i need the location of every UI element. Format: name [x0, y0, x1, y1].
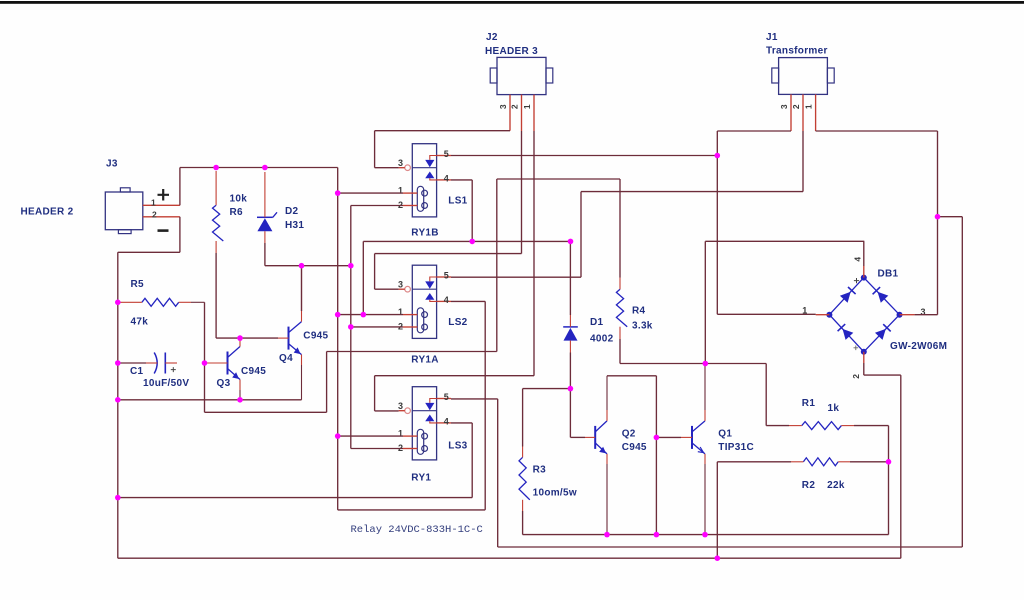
- zener diode D2 H31: [257, 212, 277, 231]
- resistor R1 zigzag: [802, 422, 842, 430]
- junction R6 top rail: [213, 165, 219, 171]
- svg-text:Q1: Q1: [718, 429, 732, 440]
- wire RY1 pin4 return: [118, 497, 472, 499]
- svg-text:Q2: Q2: [622, 429, 636, 440]
- transistor Q3 C945: [228, 347, 241, 380]
- junction J1 pin1 DB1 pin3: [935, 214, 941, 220]
- RY1A coil loop 1: [422, 312, 428, 318]
- wire DB1 pin3 riser: [937, 217, 939, 315]
- RY1 pin 3 bubble: [405, 408, 411, 414]
- J1 pin 1 stub: [815, 94, 817, 131]
- wire D1 anode to node: [569, 353, 571, 389]
- resistor R4 zigzag: [616, 289, 627, 326]
- RY1 contact common link pin5: [430, 399, 437, 403]
- svg-text:RY1: RY1: [411, 473, 431, 484]
- junction C1 left bus: [115, 360, 121, 366]
- wire R1R2 right bus: [888, 426, 890, 535]
- svg-text:Relay 24VDC-833H-1C-C: Relay 24VDC-833H-1C-C: [351, 524, 483, 536]
- J1 pin 3 stub: [790, 94, 792, 131]
- svg-text:GW-2W06M: GW-2W06M: [890, 341, 947, 352]
- wire Q1 base run: [656, 436, 681, 438]
- svg-text:J3: J3: [106, 159, 118, 170]
- RY1B contact common link pin5: [430, 156, 437, 160]
- svg-text:Q4: Q4: [279, 353, 293, 364]
- junction Q3 collector: [237, 335, 243, 341]
- wire R1 right to bus: [854, 425, 889, 427]
- wire C1 left connects bus: [118, 362, 146, 364]
- wire J1 pin2 riser: [580, 192, 582, 278]
- wire RY1A pin5 run: [451, 276, 581, 278]
- wire RY1B pin3 run: [375, 167, 399, 169]
- wire node to feedback run: [205, 411, 327, 413]
- wire J2 pin1 drop: [533, 131, 535, 376]
- wire R3 top riser: [522, 389, 524, 447]
- svg-text:4: 4: [444, 173, 449, 183]
- junction C1 right node: [202, 360, 208, 366]
- wire J2 pin1 link: [375, 375, 534, 377]
- svg-text:2: 2: [791, 104, 801, 109]
- wire collector loop drop: [655, 376, 657, 535]
- wire RY1B pin2 corner: [351, 205, 403, 207]
- wire R2 left run: [717, 461, 791, 463]
- R2 left stub: [791, 461, 803, 463]
- wire J1 pin1 jog: [938, 216, 963, 218]
- wire chain bottom run: [338, 509, 486, 511]
- wire Q4 emitter down: [301, 365, 303, 400]
- svg-text:5: 5: [444, 392, 449, 402]
- wire Q3 emitter to rail: [239, 390, 241, 400]
- wire J2 pin2 drop: [521, 131, 523, 254]
- wire RY1A pin1 run: [338, 314, 403, 316]
- wire RY1 pin3 run: [375, 410, 399, 412]
- relay RY1 box: [412, 387, 436, 460]
- DB1 pin 4 stub: [863, 266, 865, 278]
- svg-text:4: 4: [853, 257, 863, 262]
- wire R5 left connects bus: [118, 301, 121, 303]
- wire RY1 pin3 riser: [374, 376, 376, 411]
- resistor R2 zigzag: [803, 458, 838, 466]
- diode D1 4002: [563, 327, 578, 341]
- wire DB1 pin3 run: [915, 314, 938, 316]
- RY1A pin 3 stub: [399, 288, 405, 290]
- svg-text:22k: 22k: [827, 480, 845, 491]
- junction R5 left bus: [115, 300, 121, 306]
- wire R4 top drop: [619, 179, 621, 278]
- transistor Q1 TIP31C: [692, 421, 705, 454]
- wire left bus vertical: [117, 252, 119, 558]
- Q2 collector stub: [606, 410, 608, 421]
- svg-text:3.3k: 3.3k: [632, 321, 653, 332]
- capacitor C1 10uF/50V: [154, 353, 157, 374]
- wire RY1A pin3 riser: [374, 254, 376, 290]
- wire R2 left drop to ground rail: [716, 462, 718, 558]
- svg-text:D2: D2: [285, 206, 299, 217]
- svg-text:HEADER 2: HEADER 2: [21, 206, 74, 217]
- resistor R3 zigzag: [519, 457, 530, 500]
- svg-text:LS3: LS3: [448, 441, 467, 452]
- top window bar: [0, 1, 1024, 4]
- DB1 plus mark top: [854, 278, 859, 283]
- svg-text:J2: J2: [486, 32, 498, 43]
- svg-text:C945: C945: [622, 442, 647, 453]
- RY1 pin 3 stub: [399, 410, 405, 412]
- J3 pin 1: [143, 204, 180, 206]
- Q2 emitter stub: [606, 454, 608, 464]
- wire D2 anode drop: [264, 243, 266, 266]
- svg-text:Q3: Q3: [217, 378, 231, 389]
- wire DB1 pin2 jog: [864, 374, 901, 376]
- svg-text:3: 3: [398, 280, 403, 290]
- wire J1 pin3 bus drop: [716, 131, 718, 314]
- wire emitter rail A: [523, 534, 889, 536]
- C1 left stub: [146, 362, 157, 364]
- svg-text:10k: 10k: [230, 194, 248, 205]
- plus polarity mark: [158, 189, 170, 201]
- wire Q1 collector up: [704, 364, 706, 411]
- R1 right stub: [841, 425, 854, 427]
- Q4 base stub: [278, 337, 289, 339]
- junction RY1A pin2: [348, 324, 354, 330]
- svg-text:2: 2: [152, 210, 157, 220]
- wire D2 link to chains: [265, 265, 351, 267]
- wire J3 pin2 drop: [179, 217, 181, 253]
- junction Q2 emitter rail A: [604, 532, 610, 538]
- svg-text:C945: C945: [241, 366, 266, 377]
- transistor Q4 C945: [289, 322, 302, 355]
- wire RY1A pin4 drop: [484, 301, 486, 510]
- DB1 diode 2-1: [843, 329, 854, 340]
- svg-text:3: 3: [498, 104, 508, 109]
- svg-text:LS1: LS1: [448, 195, 467, 206]
- svg-text:1: 1: [522, 104, 532, 109]
- wire RY1 pin1 run: [338, 435, 403, 437]
- junction loop rail A: [654, 532, 660, 538]
- R3 bottom stub: [522, 500, 524, 511]
- wire DC plus row: [620, 363, 766, 365]
- wire DB1 pin4 riser: [863, 241, 865, 266]
- Q4 collector stub: [301, 311, 303, 322]
- svg-text:1: 1: [803, 104, 813, 109]
- wire J2 pin2 link: [375, 253, 522, 255]
- svg-text:J1: J1: [766, 32, 778, 43]
- svg-text:1: 1: [398, 186, 403, 196]
- svg-text:2: 2: [851, 374, 861, 379]
- J2 pin 1 stub: [533, 95, 535, 131]
- wire Q1 emitter down: [704, 464, 706, 535]
- wire node down to Q2 base: [569, 389, 571, 438]
- wire RY1A pin4 horiz: [451, 300, 485, 302]
- junction Q3 emitter rail: [237, 397, 243, 403]
- junction D2 coil pin2 chain: [348, 263, 354, 269]
- wire latch rail: [363, 240, 570, 242]
- wire ground right drop: [900, 375, 902, 558]
- wire RY1 pin5 horiz: [451, 398, 498, 400]
- wire D1 cathode up to latch rail: [569, 241, 571, 315]
- wire feedback cross run: [327, 351, 497, 353]
- RY1B pin5 stub: [437, 155, 451, 157]
- RY1A pin4 stub: [437, 300, 451, 302]
- Q1 emitter stub: [704, 454, 706, 464]
- wire Q2 collector loop top: [607, 375, 656, 377]
- R4 top stub: [619, 278, 621, 290]
- junction R2 right bus: [886, 459, 892, 465]
- wire feedback riser upper: [496, 179, 498, 352]
- svg-text:R1: R1: [802, 398, 816, 409]
- svg-text:3: 3: [398, 158, 403, 168]
- svg-text:Transformer: Transformer: [766, 46, 828, 57]
- junction pin4 return left bus: [115, 495, 121, 501]
- wire J1 pin3 link: [717, 130, 791, 132]
- wire RY1B pin4 horiz: [451, 179, 472, 181]
- svg-text:LS2: LS2: [448, 317, 467, 328]
- R3 top stub: [522, 447, 524, 458]
- junction ground rail: [715, 555, 721, 561]
- wire right bus drop: [961, 217, 963, 547]
- RY1A contact common link pin5: [430, 277, 437, 281]
- RY1 coil pin 2 stub: [403, 448, 417, 450]
- RY1A contact divider: [412, 288, 436, 290]
- R6 bottom stub: [215, 241, 217, 253]
- RY1 coil pin 1 stub: [403, 435, 417, 437]
- svg-text:H31: H31: [285, 220, 304, 231]
- bridge rectifier DB1 GW-2W06M: [826, 275, 902, 355]
- RY1 contact divider: [412, 410, 436, 412]
- wire C1 node down: [204, 363, 206, 412]
- wire J2 pin3 left riser: [374, 131, 376, 168]
- D1 cathode stub: [569, 315, 571, 327]
- RY1A pin5 stub: [437, 276, 451, 278]
- DB1 diode 1-4: [840, 292, 851, 303]
- wire Q2 collector up: [606, 376, 608, 410]
- junction D2 top rail: [262, 165, 268, 171]
- svg-text:TIP31C: TIP31C: [718, 442, 754, 453]
- RY1B pin 3 bubble: [405, 165, 411, 171]
- DB1 pin 2 stub: [863, 352, 865, 363]
- wire RY1B pin1 run: [338, 192, 403, 194]
- wire R4 bottom drop: [619, 339, 621, 364]
- DB1 diode 2-3: [875, 329, 886, 340]
- wire J1 pin1 drop: [937, 131, 939, 217]
- wire feedback to R4 top: [497, 178, 620, 180]
- RY1B coil pin 1 stub: [403, 192, 417, 194]
- Q1 collector stub: [704, 410, 706, 421]
- RY1B contact arrow up: [425, 172, 434, 179]
- wire RY1 pin5 drop: [497, 399, 499, 547]
- wire J3 pin2 to left bus: [118, 251, 180, 253]
- junction Q1 emitter rail A: [702, 532, 708, 538]
- RY1 pin4 stub: [437, 422, 451, 424]
- RY1B pin4 stub: [437, 179, 451, 181]
- wire ground emitter rail: [118, 399, 302, 401]
- wire R6 bottom drop: [215, 253, 217, 338]
- wire R1 left riser: [765, 364, 767, 426]
- RY1 coil loop 2: [422, 446, 428, 452]
- svg-text:5: 5: [444, 271, 449, 281]
- junction Q4 collector D2: [299, 263, 305, 269]
- connector J3 HEADER 2: [105, 188, 143, 234]
- junction RY1B pin4 latch rail: [469, 239, 475, 245]
- RY1B contact link pin4: [430, 178, 437, 180]
- wire J3 pin1 riser: [179, 168, 181, 206]
- D2 anode stub: [264, 231, 266, 243]
- svg-text:R4: R4: [632, 306, 646, 317]
- wire RY1B pin4 drop: [471, 180, 473, 242]
- RY1A coil pin 2 stub: [403, 326, 417, 328]
- RY1 contact arrow up: [425, 415, 434, 422]
- R6 top stub: [215, 171, 217, 205]
- relay RY1A box: [412, 265, 436, 338]
- RY1B coil body: [417, 186, 423, 211]
- transistor Q2 C945: [595, 421, 607, 454]
- RY1A coil loop 2: [422, 324, 428, 330]
- wire Q2 emitter down: [606, 464, 608, 535]
- RY1A pin 3 bubble: [405, 286, 411, 292]
- D2 cathode stub: [264, 172, 266, 217]
- svg-text:47k: 47k: [131, 317, 149, 328]
- RY1A contact arrow up: [425, 293, 434, 300]
- svg-text:4002: 4002: [590, 334, 614, 345]
- junction RY1 pin1: [335, 433, 341, 439]
- junction Q1 base loop: [654, 435, 660, 441]
- wire R3 bottom corner: [522, 511, 524, 535]
- DB1 diode 3-4: [878, 292, 889, 303]
- svg-text:4: 4: [444, 416, 449, 426]
- Q4 emitter stub: [301, 355, 303, 365]
- svg-text:R3: R3: [533, 465, 547, 476]
- DB1 plus mark bottom: [854, 346, 859, 351]
- svg-text:3: 3: [398, 401, 403, 411]
- wire J1 pin1 link: [816, 130, 938, 132]
- svg-text:R6: R6: [230, 207, 244, 218]
- svg-text:RY1B: RY1B: [411, 228, 439, 239]
- RY1 pin5 stub: [437, 398, 451, 400]
- wire RY1 pin2 run: [351, 448, 403, 450]
- Q2 base stub: [585, 436, 595, 438]
- svg-text:DB1: DB1: [878, 269, 899, 280]
- wire RY1 pin4 drop: [471, 423, 473, 498]
- C1 right stub: [165, 362, 177, 364]
- connector J1 Transformer: [772, 58, 834, 95]
- junction ground rail left bus: [115, 397, 121, 403]
- wire ground rail C: [118, 557, 901, 559]
- wire RY1A pin3 run: [375, 288, 399, 290]
- J2 pin 2 stub: [521, 95, 523, 131]
- svg-text:D1: D1: [590, 317, 604, 328]
- wire RY1B pin5 run to J1 pin3 bus: [451, 155, 717, 157]
- junction latch drop pin1 row: [361, 312, 367, 318]
- RY1A contact link pin4: [430, 300, 437, 302]
- wire coil pin2 chain: [350, 206, 352, 449]
- RY1B contact arrow down: [425, 160, 434, 167]
- wire R1 left horiz: [766, 425, 789, 427]
- svg-text:1k: 1k: [828, 403, 840, 414]
- svg-text:3: 3: [779, 104, 789, 109]
- wire DB1 pin1 run: [717, 313, 815, 315]
- Q3 collector stub: [239, 338, 241, 346]
- wire DB1 pin2 drop: [863, 363, 865, 375]
- C1 plus mark: [171, 367, 176, 372]
- R4 bottom stub: [619, 327, 621, 339]
- Q3 emitter stub: [239, 380, 241, 391]
- DB1 pin 3 stub: [900, 314, 915, 316]
- wire R5 to corner: [191, 301, 205, 303]
- wire latch rail left drop: [362, 241, 364, 314]
- wire J1 pin2 link: [581, 191, 803, 193]
- relay RY1B box: [412, 144, 436, 217]
- wire DC plus corner link: [705, 240, 864, 242]
- svg-text:RY1A: RY1A: [411, 355, 439, 366]
- wire common rail B: [498, 546, 963, 548]
- wire RY1 pin4 horiz: [451, 422, 472, 424]
- D1 anode stub: [569, 341, 571, 353]
- R1 left stub: [789, 425, 802, 427]
- wire R5 right corner down: [204, 302, 206, 363]
- wire Q4 collector up: [301, 266, 303, 311]
- svg-text:R2: R2: [802, 480, 816, 491]
- svg-text:2: 2: [509, 104, 519, 109]
- junction D1 R3 Q2base: [568, 386, 574, 392]
- wire DC plus drop: [704, 241, 706, 363]
- resistor R5 zigzag: [142, 298, 179, 306]
- junction D1 latch rail: [568, 239, 574, 245]
- wire feedback riser lower: [326, 352, 328, 413]
- J3 pin 2: [143, 216, 180, 218]
- wire coil pin1 chain: [337, 168, 339, 510]
- wire top rail (J3 pin1 net): [180, 167, 338, 169]
- wire J1 pin2 drop: [802, 131, 804, 192]
- RY1B contact divider: [412, 167, 436, 169]
- svg-text:HEADER 3: HEADER 3: [485, 46, 538, 57]
- svg-text:1: 1: [398, 429, 403, 439]
- junction RY1B pin1: [335, 190, 341, 196]
- wire J2 pin3 link: [375, 130, 510, 132]
- R5 right stub: [179, 301, 191, 303]
- wire R2 right to bus: [850, 461, 889, 463]
- RY1 contact link pin4: [430, 421, 437, 423]
- RY1 coil body: [417, 429, 423, 454]
- RY1 contact arrow down: [425, 403, 434, 410]
- R5 left stub: [120, 301, 141, 303]
- svg-text:R5: R5: [131, 279, 145, 290]
- RY1A contact arrow down: [425, 281, 434, 288]
- wire D2 link Q4 collector: [301, 266, 303, 311]
- wire Q2 base run: [570, 436, 585, 438]
- svg-text:C1: C1: [130, 366, 144, 377]
- RY1A coil pin 1 stub: [403, 314, 417, 316]
- svg-text:10uF/50V: 10uF/50V: [143, 378, 189, 389]
- J1 pin 2 stub: [802, 94, 804, 131]
- minus polarity mark: [158, 229, 169, 232]
- junction RY1A pin1: [335, 312, 341, 318]
- svg-text:1: 1: [151, 198, 156, 208]
- wire RY1A pin2 run: [351, 326, 403, 328]
- Q3 base stub: [205, 362, 228, 364]
- RY1A coil body: [417, 308, 423, 333]
- J2 pin 3 stub: [509, 95, 511, 131]
- Q1 base stub: [681, 436, 692, 438]
- RY1B pin 3 stub: [399, 167, 405, 169]
- junction DC plus R4: [703, 361, 709, 367]
- RY1B coil pin 2 stub: [403, 205, 417, 207]
- svg-text:4: 4: [444, 295, 449, 305]
- svg-text:1: 1: [398, 307, 403, 317]
- svg-text:5: 5: [444, 149, 449, 159]
- wire Q4 base row: [216, 337, 278, 339]
- RY1 coil loop 1: [422, 433, 428, 439]
- R2 right stub: [838, 461, 850, 463]
- svg-text:C945: C945: [303, 331, 328, 342]
- DB1 pin 1 stub: [816, 314, 830, 316]
